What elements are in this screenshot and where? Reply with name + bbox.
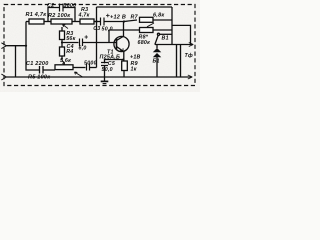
battery B1 <box>156 45 158 49</box>
input terminal Vx2 <box>1 74 6 80</box>
capacitor C6 <box>87 64 90 71</box>
resistor R1 <box>26 21 29 23</box>
wire top feed vertical <box>96 7 98 68</box>
resistor R3 mid vertical <box>60 31 65 40</box>
wire switch row to phones <box>155 44 193 46</box>
R8 arrow mark <box>147 23 154 27</box>
C4 plus sign <box>85 35 88 38</box>
svg-text:680к: 680к <box>138 40 151 46</box>
arrow out top <box>189 43 194 47</box>
svg-text:6,0: 6,0 <box>79 45 87 51</box>
wire R8 to base node <box>108 30 110 43</box>
svg-text:4,7к: 4,7к <box>78 13 90 19</box>
svg-text:С1 2200: С1 2200 <box>26 61 49 67</box>
input terminal Vx1 <box>1 43 6 49</box>
wire input1 to node <box>6 22 26 46</box>
R5 arrow mark <box>75 72 84 77</box>
R5 wiper arrow <box>62 60 65 65</box>
resistor R4 mid vertical <box>60 47 65 56</box>
R2 wiper arrow <box>63 25 69 29</box>
ground <box>104 77 106 81</box>
T1 collector <box>117 22 124 41</box>
svg-text:Б1: Б1 <box>153 58 160 64</box>
junction mid chain <box>61 41 63 43</box>
wire base row <box>62 42 79 44</box>
resistor R9 <box>122 61 128 71</box>
potentiometer R5 bottom <box>55 65 73 70</box>
svg-text:1к: 1к <box>131 66 137 72</box>
svg-text:R5 100к: R5 100к <box>28 75 51 81</box>
transistor T1 <box>114 36 129 51</box>
capacitor C3 <box>101 18 105 26</box>
svg-text:R7: R7 <box>131 14 139 20</box>
svg-text:50,0: 50,0 <box>102 67 113 73</box>
svg-text:5,6к: 5,6к <box>60 58 71 64</box>
capacitor C1 <box>40 66 44 74</box>
svg-text:5000: 5000 <box>64 3 77 9</box>
svg-text:56к: 56к <box>66 36 75 42</box>
svg-text:R1 4,7к: R1 4,7к <box>26 12 48 18</box>
svg-text:5000: 5000 <box>84 60 97 66</box>
resistor R3 <box>80 19 94 24</box>
svg-text:+12 В: +12 В <box>110 14 126 20</box>
svg-text:+: + <box>103 60 106 66</box>
capacitor C2 parallel loop <box>48 8 75 22</box>
capacitor C5 <box>101 63 108 66</box>
svg-text:+1В: +1В <box>130 54 141 60</box>
wire C6 to vertical <box>90 67 97 69</box>
wire C4 to base <box>83 42 117 44</box>
svg-text:С5: С5 <box>108 61 116 67</box>
wire top horizontal to right <box>97 6 173 8</box>
svg-text:6,8к: 6,8к <box>153 12 165 18</box>
wire right vertical <box>171 7 173 45</box>
wire bottom rail <box>6 76 191 78</box>
svg-text:С4: С4 <box>67 44 74 50</box>
bottom rail arrow <box>188 75 193 79</box>
node collector junction <box>123 20 125 22</box>
node top junction <box>95 20 97 22</box>
capacitor C4 <box>80 39 83 47</box>
wire battery to rail <box>156 57 158 77</box>
wire R9 to rail <box>123 71 125 78</box>
resistor R7 <box>140 17 154 22</box>
svg-text:50,0: 50,0 <box>102 27 113 33</box>
wire ground stub <box>15 46 17 77</box>
node input junction <box>25 45 27 47</box>
C3 plus sign <box>106 14 110 18</box>
headphone Tf box <box>172 25 191 44</box>
node emitter junction <box>122 58 124 60</box>
dashed enclosure border <box>4 5 195 86</box>
wire R2 wiper down <box>61 27 63 31</box>
resistor R8 variable <box>140 28 154 33</box>
wire R5 to C6 <box>73 67 86 69</box>
T1 emitter with arrow <box>117 47 124 52</box>
potentiometer R2 <box>51 19 72 24</box>
svg-text:С3: С3 <box>93 26 100 32</box>
switch V1 <box>160 33 172 35</box>
svg-text:Тф: Тф <box>185 52 193 59</box>
wire C1 to R5 <box>43 69 55 71</box>
wire left vertical node to C1 <box>26 46 40 70</box>
wire emitter branch <box>105 60 124 63</box>
svg-text:В1: В1 <box>162 36 169 42</box>
wire emitter down <box>123 52 125 62</box>
headphone Tf legs <box>176 45 178 78</box>
svg-text:С2: С2 <box>47 3 54 9</box>
wire R4 to pot wiper <box>61 56 63 60</box>
wire C5 to rail <box>104 66 106 78</box>
wire C3 to R7 <box>104 20 137 22</box>
svg-text:R2 100к: R2 100к <box>48 13 71 19</box>
